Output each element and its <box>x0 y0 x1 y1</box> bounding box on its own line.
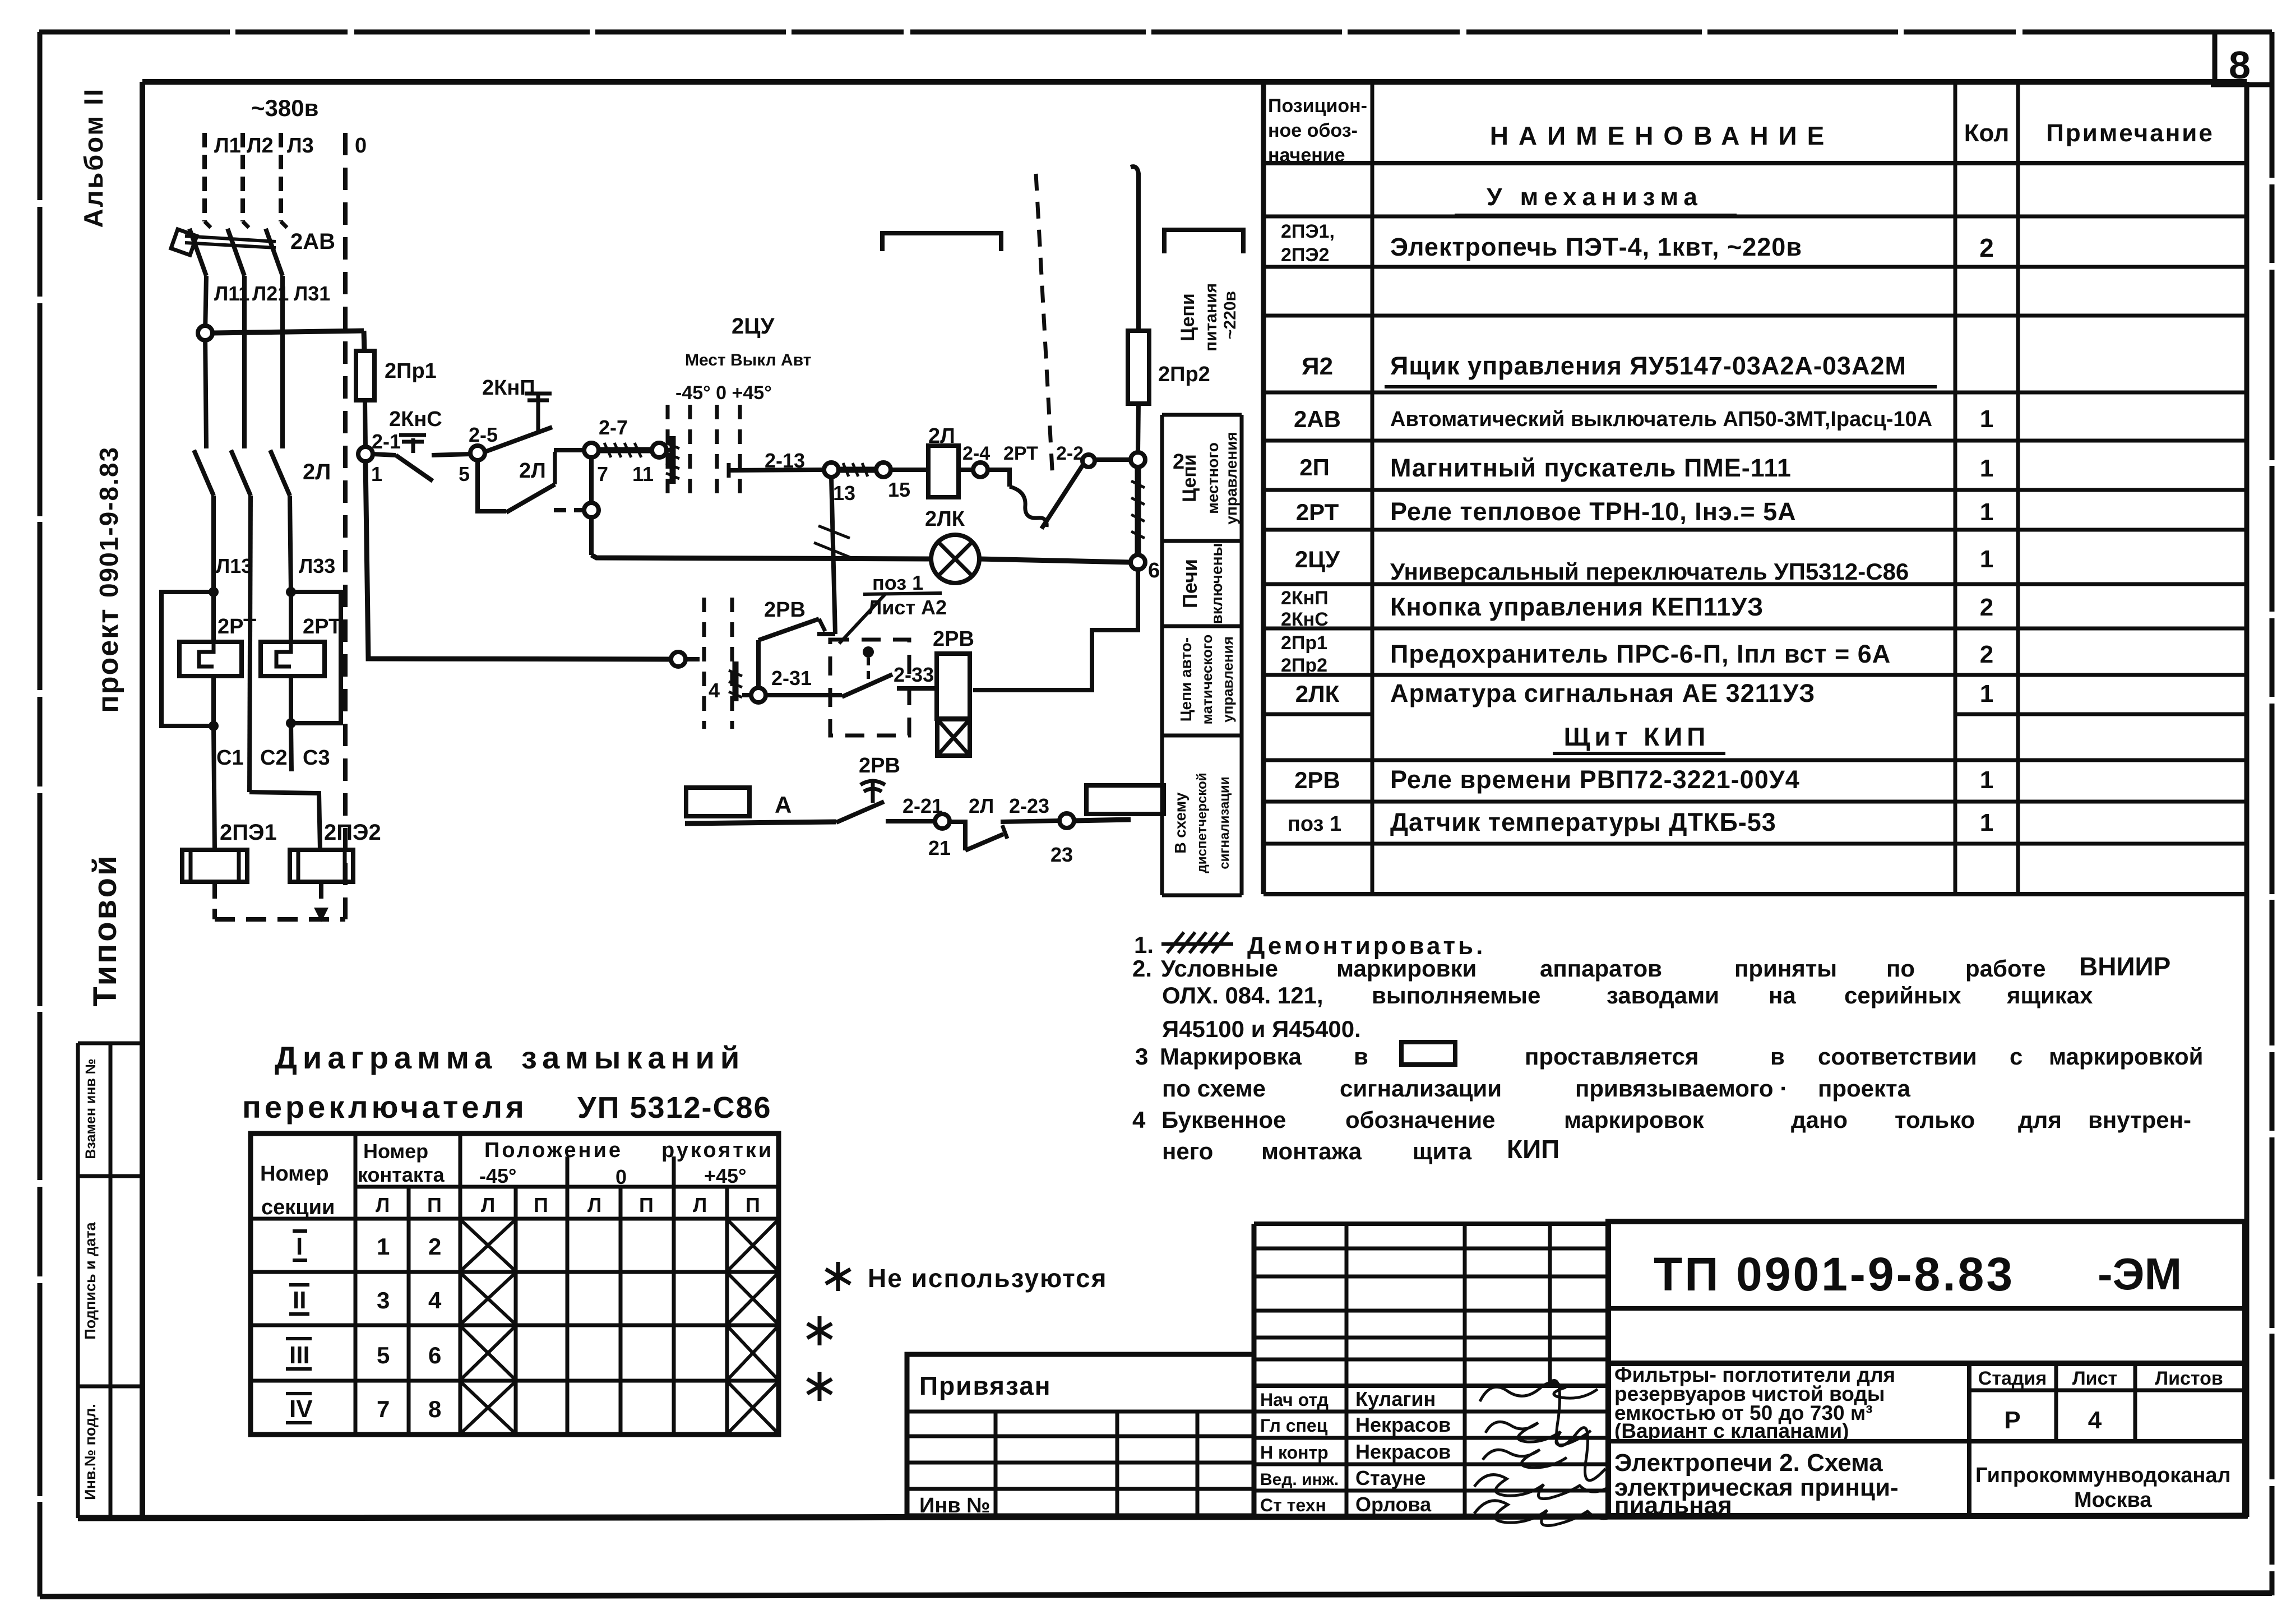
svg-text:Номер: Номер <box>363 1140 428 1163</box>
heater 2ПЭ2 <box>290 850 353 882</box>
svg-text:2: 2 <box>428 1233 441 1260</box>
svg-text:поз 1: поз 1 <box>1288 812 1341 836</box>
svg-text:П: П <box>639 1193 654 1216</box>
cable marking bar on switch column <box>670 436 676 484</box>
svg-text:6: 6 <box>1148 559 1160 582</box>
svg-text:4: 4 <box>428 1287 442 1313</box>
svg-text:ОЛХ. 084. 121,: ОЛХ. 084. 121, <box>1162 982 1323 1008</box>
svg-text:монтажа: монтажа <box>1261 1138 1362 1164</box>
svg-text:2Л: 2Л <box>303 460 331 484</box>
svg-text:Арматура сигнальная АЕ 3211У: Арматура сигнальная АЕ 3211УЗ <box>1390 679 1815 707</box>
svg-text:1: 1 <box>1980 766 1993 794</box>
svg-text:Некрасов: Некрасов <box>1355 1413 1451 1436</box>
wire С3 stub <box>291 723 291 771</box>
bus Л3 <box>279 133 283 221</box>
svg-text:II: II <box>293 1287 306 1314</box>
svg-text:привязываемого ·: привязываемого · <box>1575 1075 1788 1102</box>
svg-text:3: 3 <box>377 1287 390 1313</box>
svg-text:Л1: Л1 <box>214 134 241 158</box>
svg-text:Щит КИП: Щит КИП <box>1564 722 1710 751</box>
svg-text:У механизма: У механизма <box>1487 183 1703 211</box>
contact 2Л (signal) <box>950 822 965 850</box>
svg-text:(Вариант с клапанами): (Вариант с клапанами) <box>1614 1419 1849 1442</box>
switch 2ЦУ position columns (lower) <box>702 598 706 729</box>
svg-text:7: 7 <box>597 462 608 485</box>
svg-text:матического: матического <box>1198 635 1215 725</box>
svg-text:21: 21 <box>928 836 951 859</box>
fuse 2Пр2 and right rail <box>1131 166 1138 174</box>
node 13 <box>824 462 839 477</box>
svg-text:С2: С2 <box>260 746 288 770</box>
svg-text:внутрен-: внутрен- <box>2088 1107 2191 1133</box>
wire Л11 <box>205 276 206 333</box>
svg-text:управления: управления <box>1219 636 1236 723</box>
svg-text:соответствии: соответствии <box>1818 1043 1977 1070</box>
svg-text:КИП: КИП <box>1507 1135 1559 1164</box>
svg-text:2: 2 <box>1979 233 1994 262</box>
svg-text:2АВ: 2АВ <box>290 229 335 254</box>
svg-text:Л2: Л2 <box>247 134 274 158</box>
svg-text:Маркировка: Маркировка <box>1160 1043 1302 1070</box>
node 7 <box>584 443 599 457</box>
svg-text:серийных: серийных <box>1844 982 1961 1008</box>
svg-text:Кнопка управления КЕП11УЗ: Кнопка управления КЕП11УЗ <box>1390 593 1764 621</box>
svg-text:2-5: 2-5 <box>469 423 498 446</box>
button 2КнС (stop, NC) <box>373 454 396 455</box>
svg-text:Кулагин: Кулагин <box>1355 1387 1436 1410</box>
svg-text:местного: местного <box>1204 442 1221 514</box>
svg-text:Л13: Л13 <box>216 554 252 577</box>
svg-text:4: 4 <box>2088 1406 2102 1434</box>
bracket marker <box>882 233 1001 251</box>
svg-text:~380в: ~380в <box>251 95 318 121</box>
svg-text:Электропечи 2. Схема: Электропечи 2. Схема <box>1614 1449 1883 1477</box>
lamp 2ЛК <box>931 535 979 583</box>
svg-text:сигнализации: сигнализации <box>1340 1075 1502 1102</box>
svg-text:2КнП: 2КнП <box>1281 587 1329 609</box>
svg-text:С3: С3 <box>303 746 330 770</box>
lower left rail <box>365 461 670 659</box>
svg-text:-45°: -45° <box>479 1164 516 1187</box>
wire С3 upper <box>290 496 291 592</box>
svg-text:2-33: 2-33 <box>894 663 934 686</box>
svg-text:IV: IV <box>289 1395 313 1423</box>
svg-text:~220в: ~220в <box>1221 291 1239 339</box>
svg-text:6: 6 <box>428 1342 441 1368</box>
svg-text:Стауне: Стауне <box>1355 1466 1425 1489</box>
svg-text:проект: проект <box>92 608 124 712</box>
node 1 (2-1) <box>358 447 373 461</box>
return wires to neutral (dashed) <box>212 882 217 919</box>
svg-text:Инв.№ подл.: Инв.№ подл. <box>82 1404 99 1500</box>
POWER CIRCUIT <box>214 95 437 845</box>
TITLE BLOCK <box>907 1222 2245 1516</box>
svg-text:Реле тепловое ТРН-10, Iнэ.=: Реле тепловое ТРН-10, Iнэ.= 5А <box>1390 497 1797 526</box>
right title block <box>1608 1222 2245 1516</box>
svg-text:замыканий: замыканий <box>521 1040 745 1075</box>
svg-text:начение: начение <box>1268 145 1345 166</box>
svg-text:2Пр1: 2Пр1 <box>1281 632 1327 654</box>
wire С1 lower <box>214 726 215 850</box>
svg-text:ТП 0901-9-8.83: ТП 0901-9-8.83 <box>1654 1248 2015 1301</box>
svg-text:щита: щита <box>1413 1138 1472 1164</box>
svg-text:2ПЭ2: 2ПЭ2 <box>324 820 381 845</box>
junction below node 7 <box>584 503 599 517</box>
node 2-23 <box>1059 813 1074 828</box>
svg-text:3: 3 <box>1135 1043 1148 1070</box>
wire to 2РВ coil <box>897 686 937 691</box>
svg-text:Листов: Листов <box>2155 1368 2223 1389</box>
svg-text:1: 1 <box>1980 545 1993 573</box>
svg-text:П: П <box>534 1193 548 1216</box>
wire node7 down <box>589 457 594 555</box>
link 2-7 (marking element) <box>599 447 652 454</box>
svg-text:с: с <box>2010 1043 2022 1070</box>
X marks <box>462 1221 777 1432</box>
svg-text:Н контр: Н контр <box>1260 1442 1329 1463</box>
svg-text:Л: Л <box>376 1193 390 1216</box>
svg-text:2КнС: 2КнС <box>1281 609 1329 630</box>
svg-text:13: 13 <box>833 482 855 505</box>
svg-text:пиальная: пиальная <box>1614 1492 1732 1519</box>
contact 2РВ (NO) in switch <box>817 632 835 636</box>
svg-text:2.: 2. <box>1132 955 1152 982</box>
contactor 2Л pole 2 <box>231 450 251 496</box>
svg-text:В схему: В схему <box>1172 792 1189 854</box>
svg-text:1.: 1. <box>1134 932 1154 958</box>
svg-text:Л3: Л3 <box>287 134 314 158</box>
breaker 2АВ crossbar <box>185 236 276 242</box>
svg-text:Я2: Я2 <box>1302 353 1333 380</box>
svg-text:Не используются: Не используются <box>868 1264 1107 1293</box>
wire Л31 <box>280 276 285 448</box>
svg-text:П: П <box>427 1193 442 1216</box>
svg-text:Электропечь ПЭТ-4, 1квт, ~220: Электропечь ПЭТ-4, 1квт, ~220в <box>1390 233 1802 261</box>
svg-text:2-2: 2-2 <box>1056 443 1084 464</box>
heater 2ПЭ1 <box>182 850 247 882</box>
svg-text:2ПЭ1,: 2ПЭ1, <box>1281 221 1335 242</box>
thermal relay 2РТ heater element left <box>211 592 216 642</box>
node 5 (2-5) <box>470 446 485 460</box>
svg-text:2РВ: 2РВ <box>1294 767 1340 793</box>
middle grid <box>1252 1224 1257 1516</box>
svg-text:2Пр2: 2Пр2 <box>1158 363 1210 386</box>
svg-text:Стадия: Стадия <box>1978 1368 2047 1389</box>
svg-text:2ЛК: 2ЛК <box>925 507 965 531</box>
svg-text:1: 1 <box>1980 455 1993 482</box>
svg-text:2РТ: 2РТ <box>303 615 341 639</box>
panel boundary (dashed) <box>1036 174 1053 479</box>
svg-text:для: для <box>2018 1107 2062 1133</box>
svg-text:-ЭМ: -ЭМ <box>2098 1249 2182 1299</box>
CONTROL CIRCUIT <box>371 314 1210 866</box>
svg-text:15: 15 <box>888 478 910 501</box>
svg-text:секции: секции <box>261 1196 335 1219</box>
svg-text:Универсальный переключатель: Универсальный переключатель УП5312-С86 <box>1390 558 1909 585</box>
svg-text:Цепи авто-: Цепи авто- <box>1177 637 1195 721</box>
wire 2-13 row <box>727 463 731 478</box>
node 2 <box>1131 452 1145 467</box>
relay coil 2РВ <box>937 654 970 719</box>
svg-text:маркировки: маркировки <box>1336 955 1477 982</box>
svg-text:сигнализации: сигнализации <box>1217 776 1232 869</box>
svg-text:Лист: Лист <box>2072 1368 2117 1389</box>
signatures <box>1474 1381 1618 1526</box>
svg-text:диспетчерской: диспетчерской <box>1195 772 1210 873</box>
COMPONENT TABLE <box>1263 82 2247 894</box>
wire С2 upper <box>249 496 251 792</box>
svg-text:Альбом II: Альбом II <box>78 87 108 228</box>
callout to поз 1 лист А2 <box>839 593 886 644</box>
svg-text:1: 1 <box>1980 498 1993 526</box>
svg-text:23: 23 <box>1050 843 1073 866</box>
node 15 <box>876 462 891 477</box>
svg-text:Инв №: Инв № <box>919 1494 991 1517</box>
svg-text:0901-9-8.83: 0901-9-8.83 <box>94 446 123 598</box>
svg-text:2РВ: 2РВ <box>859 754 900 778</box>
svg-text:Условные: Условные <box>1161 955 1278 982</box>
SIDEBAR <box>78 87 124 1007</box>
contactor 2Л pole 3 <box>270 450 290 496</box>
wire С2 jog to 2ПЭ2 <box>249 792 320 850</box>
svg-text:2: 2 <box>1980 641 1993 668</box>
svg-text:Я45100 и Я45400.: Я45100 и Я45400. <box>1162 1016 1361 1042</box>
rail down to 2РВ coil <box>973 570 1138 690</box>
svg-text:выполняемые: выполняемые <box>1372 982 1540 1008</box>
svg-text:Некрасов: Некрасов <box>1355 1440 1451 1463</box>
demontage strike mark <box>1161 932 1233 953</box>
svg-text:по: по <box>1886 955 1915 982</box>
wire row to lamp <box>591 555 931 559</box>
svg-text:8: 8 <box>2229 43 2251 87</box>
svg-text:+45°: +45° <box>704 1164 746 1187</box>
svg-text:обозначение: обозначение <box>1345 1107 1496 1133</box>
svg-text:Москва: Москва <box>2074 1488 2152 1512</box>
cable marking bar lower <box>733 661 739 701</box>
svg-text:2ЛК: 2ЛК <box>1295 681 1340 707</box>
svg-text:Гипрокоммунводоканал: Гипрокоммунводоканал <box>1975 1464 2231 1487</box>
wire from node 13 down to 2РВ contact <box>831 477 835 634</box>
svg-text:Л33: Л33 <box>299 554 335 577</box>
svg-text:2АВ: 2АВ <box>1294 406 1341 432</box>
svg-text:2-1: 2-1 <box>372 430 401 453</box>
svg-text:ное обоз-: ное обоз- <box>1268 120 1358 141</box>
breaker 2АВ pole 2 <box>243 221 249 228</box>
breaker 2АВ pole 1 <box>205 221 211 228</box>
svg-text:проставляется: проставляется <box>1525 1043 1699 1070</box>
CATEGORY COLUMN <box>1164 230 1243 253</box>
FRAMES <box>39 30 2272 35</box>
svg-text:2РТ: 2РТ <box>1003 443 1038 464</box>
node 11 <box>652 443 667 457</box>
wire tap to fuse 2Пр1 <box>212 331 364 333</box>
svg-text:2-4: 2-4 <box>962 443 990 464</box>
svg-text:НАИМЕНОВАНИЕ: НАИМЕНОВАНИЕ <box>1490 121 1835 150</box>
svg-text:2ПЭ2: 2ПЭ2 <box>1281 244 1329 266</box>
svg-text:Л: Л <box>587 1193 601 1216</box>
svg-text:по схеме: по схеме <box>1162 1075 1266 1102</box>
svg-text:работе: работе <box>1965 955 2046 982</box>
thermal contact 2РТ (NC) <box>988 470 1010 487</box>
svg-text:0: 0 <box>355 134 367 158</box>
svg-text:2РТ: 2РТ <box>1296 499 1339 525</box>
switch 2ЦУ position columns (upper) <box>666 405 670 498</box>
svg-text:8: 8 <box>428 1396 441 1422</box>
svg-text:7: 7 <box>377 1396 390 1422</box>
temperature sensor поз.1 (dashed box) <box>830 640 909 735</box>
svg-text:Положение: Положение <box>484 1139 623 1162</box>
svg-text:Ст техн: Ст техн <box>1260 1495 1326 1515</box>
svg-text:рукоятки: рукоятки <box>661 1139 774 1162</box>
svg-text:Взамен инв №: Взамен инв № <box>83 1058 99 1159</box>
svg-text:0: 0 <box>615 1165 627 1188</box>
thermal relay 2РТ right bypass loop <box>291 592 341 723</box>
wire to node 2-31 <box>756 640 761 688</box>
fuse 2Пр1 <box>356 351 374 400</box>
node tap to control circuit <box>198 326 212 340</box>
svg-text:2П: 2П <box>1299 454 1330 480</box>
thermal relay 2РТ heater element right <box>289 592 293 642</box>
svg-text:включены: включены <box>1208 543 1225 624</box>
svg-text:переключателя: переключателя <box>242 1089 527 1125</box>
svg-text:Гл спец: Гл спец <box>1260 1415 1328 1436</box>
svg-text:Позицион-: Позицион- <box>1268 95 1367 117</box>
svg-text:поз 1: поз 1 <box>872 571 923 594</box>
svg-text:аппаратов: аппаратов <box>1540 955 1662 982</box>
svg-text:Ящик управления ЯУ5147-03А2А: Ящик управления ЯУ5147-03А2А-03А2М <box>1390 351 1906 380</box>
svg-text:4: 4 <box>1132 1107 1146 1133</box>
svg-text:только: только <box>1895 1107 1975 1133</box>
node 6 <box>1131 555 1145 570</box>
svg-text:1: 1 <box>377 1233 390 1260</box>
breaker 2АВ pole 3 <box>281 221 287 228</box>
contact 2Л aux bypass <box>478 460 506 511</box>
svg-text:I: I <box>296 1233 303 1260</box>
svg-text:2ЦУ: 2ЦУ <box>1295 546 1340 572</box>
svg-text:Р: Р <box>2004 1406 2020 1434</box>
svg-text:III: III <box>289 1341 310 1369</box>
svg-text:1: 1 <box>371 462 382 485</box>
svg-text:Датчик температуры ДТКБ-53: Датчик температуры ДТКБ-53 <box>1390 808 1776 836</box>
signal box right <box>1086 785 1164 814</box>
svg-text:Вед. инж.: Вед. инж. <box>1260 1470 1339 1489</box>
svg-text:П: П <box>746 1193 760 1216</box>
svg-text:2-31: 2-31 <box>771 667 812 690</box>
svg-text:Предохранитель ПРС-6-П, Iпл в: Предохранитель ПРС-6-П, Iпл вст = 6А <box>1390 640 1891 668</box>
svg-text:маркировкой: маркировкой <box>2049 1043 2203 1070</box>
svg-text:11: 11 <box>632 462 654 485</box>
NOTES <box>1132 932 2203 1164</box>
svg-text:Магнитный пускатель ПМЕ-111: Магнитный пускатель ПМЕ-111 <box>1390 454 1792 482</box>
svg-text:2КнП: 2КнП <box>482 376 535 400</box>
svg-text:2Пр1: 2Пр1 <box>385 359 437 383</box>
svg-text:УП 5312-С86: УП 5312-С86 <box>577 1091 772 1125</box>
svg-text:5: 5 <box>459 462 470 485</box>
svg-text:дано: дано <box>1791 1107 1848 1133</box>
svg-text:контакта: контакта <box>358 1163 445 1186</box>
bus 0 neutral <box>343 133 348 919</box>
svg-text:2РВ: 2РВ <box>764 598 806 622</box>
svg-text:Цепи: Цепи <box>1179 454 1200 502</box>
svg-text:Подпись и дата: Подпись и дата <box>82 1222 99 1339</box>
svg-text:Номер: Номер <box>260 1162 329 1186</box>
SWITCH DIAGRAM <box>242 1040 772 1125</box>
svg-text:2Л: 2Л <box>969 794 994 817</box>
svg-text:Автоматический выключатель А: Автоматический выключатель АП50-3МТ,Iрас… <box>1390 408 1932 431</box>
svg-text:Печи: Печи <box>1178 559 1201 608</box>
svg-text:Реле времени РВП72-3221-00У4: Реле времени РВП72-3221-00У4 <box>1390 765 1800 794</box>
svg-text:управления: управления <box>1223 432 1240 524</box>
svg-text:на: на <box>1769 982 1796 1008</box>
svg-text:2ПЭ1: 2ПЭ1 <box>220 820 277 845</box>
svg-text:-45° 0 +45°: -45° 0 +45° <box>675 382 772 404</box>
svg-text:в: в <box>1770 1043 1785 1070</box>
button 2КнП (start, NO) <box>485 427 552 452</box>
svg-text:2КнС: 2КнС <box>389 408 442 431</box>
svg-text:Л: Л <box>481 1193 495 1216</box>
svg-text:4: 4 <box>709 679 720 702</box>
cable marking between 13 and 15 <box>839 467 876 473</box>
svg-text:Привязан: Привязан <box>919 1371 1052 1400</box>
contactor 2Л pole 1 <box>194 450 214 496</box>
svg-text:2-23: 2-23 <box>1009 794 1049 817</box>
svg-text:Кол: Кол <box>1964 119 2010 147</box>
svg-text:2РВ: 2РВ <box>933 627 974 651</box>
svg-text:него: него <box>1162 1138 1213 1164</box>
asterisks <box>807 1262 850 1401</box>
signal row wire <box>685 822 836 823</box>
coil 2Л <box>928 446 959 497</box>
svg-text:С1: С1 <box>216 746 244 770</box>
svg-text:1: 1 <box>1980 680 1993 707</box>
svg-text:питания: питания <box>1202 283 1220 351</box>
svg-text:Диаграмма: Диаграмма <box>275 1040 497 1075</box>
node 2-21 <box>935 814 950 829</box>
svg-text:Буквенное: Буквенное <box>1161 1107 1286 1133</box>
marking box in note 3 <box>1401 1042 1455 1065</box>
svg-text:ящиках: ящиках <box>2006 982 2093 1008</box>
svg-text:Л: Л <box>693 1193 707 1216</box>
wire to node 7 <box>554 448 585 452</box>
svg-text:в: в <box>1354 1043 1368 1070</box>
cable marking on rail <box>1135 467 1141 555</box>
svg-text:Примечание: Примечание <box>2046 119 2214 147</box>
bus Л1 <box>202 133 207 221</box>
svg-text:1: 1 <box>1980 405 1993 433</box>
svg-text:Л31: Л31 <box>294 282 330 305</box>
svg-text:2Пр2: 2Пр2 <box>1281 655 1327 676</box>
wire С1 upper <box>211 496 216 592</box>
svg-text:2-7: 2-7 <box>599 416 628 439</box>
signal box A <box>686 788 749 816</box>
svg-text:Типовой: Типовой <box>87 853 123 1006</box>
привязан box <box>907 1354 1254 1516</box>
node 2-4 <box>973 462 988 477</box>
svg-text:А: А <box>775 792 792 818</box>
svg-text:Нач отд: Нач отд <box>1260 1390 1329 1410</box>
svg-text:маркировок: маркировок <box>1564 1107 1705 1133</box>
svg-text:приняты: приняты <box>1734 955 1837 982</box>
bus Л2 <box>240 133 245 221</box>
svg-text:2ЦУ: 2ЦУ <box>732 314 775 339</box>
svg-text:ВНИИР: ВНИИР <box>2079 952 2170 981</box>
svg-text:5: 5 <box>377 1342 390 1368</box>
svg-text:2Л: 2Л <box>519 459 546 483</box>
svg-text:Цепи: Цепи <box>1177 293 1198 341</box>
svg-text:Мест Выкл Авт: Мест Выкл Авт <box>685 351 811 369</box>
time contact 2РВ <box>836 802 884 822</box>
svg-text:заводами: заводами <box>1607 982 1719 1008</box>
